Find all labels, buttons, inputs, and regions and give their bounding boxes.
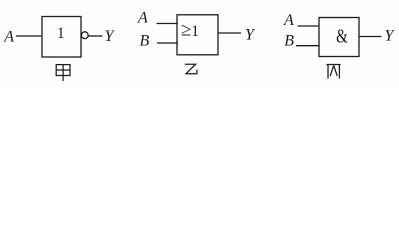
svg-text:A: A [283, 12, 294, 29]
svg-text:1: 1 [57, 25, 65, 42]
svg-text:B: B [284, 33, 294, 50]
svg-text:A: A [3, 29, 14, 46]
OR gate box (&#8805;1) [177, 15, 218, 55]
svg-text:B: B [140, 33, 150, 50]
wire (gate 2 output) [218, 32, 241, 34]
label 甲 (hand-drawn strokes) [56, 65, 70, 81]
op-amp U1: NOT gate box (1) [42, 17, 81, 58]
svg-text:A: A [137, 10, 148, 27]
label 乙 (hand-drawn strokes) [185, 64, 197, 74]
inverter bubble [81, 32, 88, 39]
label 丙 (hand-drawn strokes) [326, 65, 340, 79]
wire (gate 3 input B) [296, 45, 320, 47]
wire (gate 1 input) [16, 35, 43, 37]
wire (gate 2 input A) [157, 23, 179, 25]
wire (gate 2 input B) [157, 42, 178, 44]
svg-text:&: & [336, 24, 348, 47]
wire (gate 1 output) [88, 35, 102, 37]
AND gate box (&amp;) [319, 18, 359, 57]
svg-text:1: 1 [191, 23, 199, 40]
wire (gate 3 input A) [298, 25, 320, 27]
svg-text:≥: ≥ [181, 20, 191, 41]
wire (gate 3 output) [359, 36, 382, 38]
